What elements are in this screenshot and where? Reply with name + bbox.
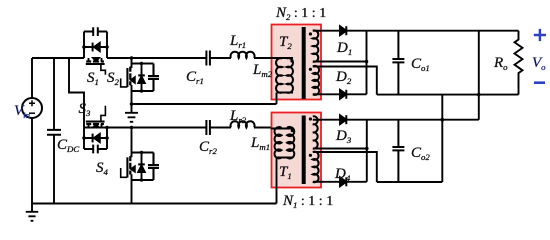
diode D2: [340, 90, 346, 99]
diode D4: [340, 177, 346, 186]
node S2 inner bottom: [140, 89, 143, 92]
wire secondary C: [321, 93, 340, 95]
node tap E1: [365, 147, 369, 151]
ground S2: [125, 113, 138, 122]
inductor Lm1 winding: [274, 127, 281, 158]
wire bottom rail: [32, 203, 277, 205]
voltage source Vin: [22, 98, 42, 118]
mosfet S2: [130, 58, 131, 113]
core T1: [302, 116, 306, 185]
node S3 right: [105, 126, 109, 130]
node T1 secondary dot upper: [309, 117, 312, 120]
capacitor of S1: [93, 27, 98, 36]
wire T1 entry: [271, 128, 293, 130]
gate lead S4: [121, 168, 128, 177]
transformer T1 highlight box: [272, 113, 322, 188]
switch S1 cell frame: [84, 32, 107, 59]
diode of S1: [84, 46, 107, 48]
wire top rail: [32, 57, 84, 59]
node S4 inner top: [140, 151, 143, 154]
wire cluster vertical T2: [366, 31, 368, 95]
inductor Lm2 winding: [276, 58, 282, 92]
inductor Lr1: [231, 52, 255, 58]
wire CDC top stem: [53, 58, 55, 130]
wire secondary A: [321, 30, 340, 32]
wire negative rail: [377, 94, 519, 96]
node S1 diode right: [105, 45, 109, 49]
wire Co2 bottom: [377, 181, 443, 183]
wire secondary F: [321, 181, 340, 183]
wire T2 primary exit: [276, 93, 278, 105]
capacitor Cr1: [206, 51, 210, 66]
resistor Ro: [515, 31, 523, 95]
wire Co2 right vertical: [441, 95, 443, 182]
primary winding T2: [287, 58, 293, 93]
svg-text:N2 : 1 : 1: N2 : 1 : 1: [275, 5, 326, 22]
primary winding T1: [287, 127, 294, 159]
wire CDC bottom stem: [53, 135, 55, 204]
wire Co2 link vertical: [478, 31, 480, 120]
wire S4 inner top: [132, 152, 154, 154]
ground main: [26, 204, 38, 221]
node T2 secondary dot lower: [309, 68, 312, 71]
svg-text:N1 : 1 : 1: N1 : 1 : 1: [282, 193, 333, 210]
wire T1 primary bottom: [277, 157, 294, 159]
node T1 secondary dot lower: [309, 154, 312, 157]
capacitor of S2: [148, 64, 159, 92]
wire S4 inner bottom: [132, 179, 154, 181]
node return junction: [130, 102, 134, 106]
wire tap B2: [321, 67, 377, 95]
node T1 primary dot: [291, 129, 294, 132]
wire D1 to Ro top: [346, 30, 518, 32]
wire S1 to Cr1: [107, 57, 206, 59]
secondary winding T1 lower: [313, 152, 321, 183]
wire S3 to Cr2: [84, 127, 206, 129]
node Co2 top rail: [441, 118, 445, 122]
label minus terminal: [534, 81, 545, 84]
wire T2 primary bottom: [277, 92, 294, 94]
wire primary return T2: [132, 103, 277, 105]
label plus terminal: [534, 29, 546, 41]
wire cluster vertical T1: [366, 120, 368, 182]
wire jog rail to S3: [69, 58, 84, 149]
secondary winding T2 upper: [313, 30, 321, 61]
mosfet S1: [89, 58, 102, 61]
capacitor Co1: [392, 31, 404, 95]
wire D3 to Co2 top rail: [346, 119, 479, 121]
capacitor of S4: [148, 153, 159, 181]
capacitor Cr2: [206, 120, 210, 135]
gate lead S1: [101, 64, 106, 75]
wire Lr2 to T1: [254, 127, 271, 129]
node S4 inner bottom: [140, 178, 143, 181]
wire S2 inner bottom: [132, 90, 154, 92]
wire D4 to riser: [346, 181, 367, 183]
inductor Lr2: [231, 121, 255, 127]
core T2: [302, 27, 306, 99]
secondary winding T1 upper: [313, 116, 321, 148]
node T2 primary dot: [290, 59, 293, 62]
wire Lr1 to T2: [254, 57, 293, 59]
wire S2 inner top: [132, 63, 154, 65]
capacitor of S3: [93, 145, 98, 154]
wire tap B1: [321, 61, 367, 63]
node S3 diode left: [82, 136, 86, 140]
diode D1: [340, 26, 346, 35]
wire T1 primary exit: [276, 158, 278, 204]
wire Cr1 to Lr1: [210, 57, 231, 59]
gate lead S3: [101, 106, 106, 122]
mosfet S4: [130, 128, 131, 204]
wire Vin top stem: [31, 58, 33, 98]
node S2 drain tap: [130, 56, 134, 60]
node T2 secondary dot upper: [309, 32, 312, 35]
diode D3: [340, 115, 346, 124]
capacitor Co2: [392, 120, 404, 182]
node S2 inner top: [140, 62, 143, 65]
wire Cr2 to Lr2: [210, 127, 231, 129]
secondary winding T2 lower: [313, 66, 321, 95]
body diode of S4: [141, 153, 143, 181]
wire D2 to riser: [346, 93, 366, 95]
node S1 diode left: [82, 45, 86, 49]
diode of S3: [92, 134, 94, 143]
node negative rail: [477, 93, 481, 97]
node tap B1: [365, 60, 369, 64]
switch S3 cell frame: [84, 128, 107, 150]
wire tap E2: [321, 152, 377, 182]
wire secondary D: [321, 119, 340, 121]
transformer T2 highlight box: [272, 25, 322, 100]
capacitor CDC: [47, 130, 61, 135]
gate lead S2: [121, 78, 128, 87]
node S3 diode right: [105, 136, 109, 140]
body diode of S2: [141, 64, 143, 92]
wire tap E1: [321, 148, 367, 150]
wire Vin bottom stem: [31, 118, 33, 204]
mosfet S3: [89, 124, 102, 127]
node S4 drain tap: [130, 126, 134, 130]
